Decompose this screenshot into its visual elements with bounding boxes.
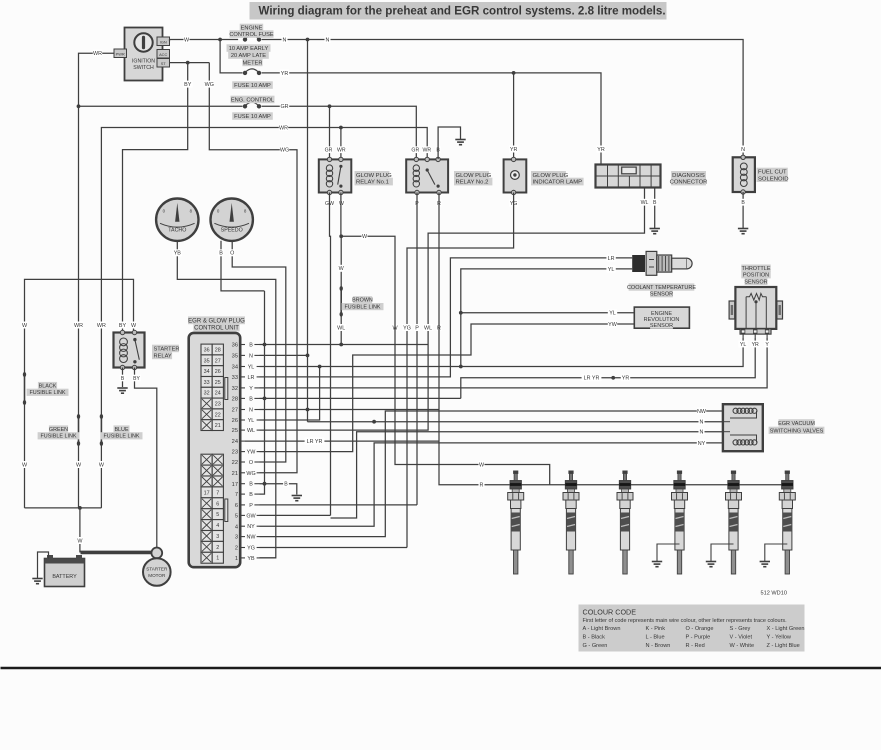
wire pin26 YL row <box>260 367 320 421</box>
svg-text:36: 36 <box>232 343 238 349</box>
svg-text:NW: NW <box>247 535 257 541</box>
svg-text:WG: WG <box>246 471 255 477</box>
svg-text:FUSIBLE LINK: FUSIBLE LINK <box>41 434 77 440</box>
wire B fuel cut solenoid to ground <box>742 192 744 229</box>
glow plug relay No.2 label <box>454 171 492 186</box>
wire pin34 YL row to throttle sensor <box>260 338 744 367</box>
node YW <box>608 321 618 328</box>
wire YG riser from indicator lamp <box>407 193 514 548</box>
node O <box>229 249 235 256</box>
svg-text:RELAY No.1: RELAY No.1 <box>356 180 389 186</box>
svg-text:CONTROL UNIT: CONTROL UNIT <box>194 326 239 332</box>
svg-text:WR: WR <box>93 51 102 57</box>
meter fuse <box>243 69 261 75</box>
black fusible link <box>23 372 26 405</box>
wire pin1 YB row <box>260 557 276 559</box>
node YG <box>402 324 411 331</box>
svg-text:WG: WG <box>205 82 214 88</box>
svg-text:YB: YB <box>247 556 255 562</box>
svg-text:W: W <box>339 201 344 207</box>
ignition switch box <box>125 28 163 81</box>
svg-text:6: 6 <box>216 501 219 507</box>
svg-text:25: 25 <box>232 428 238 434</box>
node WG <box>280 146 289 153</box>
svg-text:33: 33 <box>204 380 210 386</box>
ground relay No.2 B <box>455 140 465 145</box>
junction pin34 YL coolant branch <box>459 365 463 369</box>
wire LR-YR riser to throttle sensor <box>461 338 755 398</box>
glow plug indicator lamp <box>504 157 527 195</box>
svg-text:3: 3 <box>216 534 219 540</box>
brown fusible link <box>340 286 343 317</box>
svg-text:Y - Yellow: Y - Yellow <box>767 634 792 640</box>
coolant temperature sensor <box>632 251 692 275</box>
svg-text:WL: WL <box>641 200 649 206</box>
svg-text:GR: GR <box>411 148 419 154</box>
fuel cut solenoid <box>733 155 755 194</box>
svg-text:24: 24 <box>215 391 221 397</box>
svg-text:1: 1 <box>216 556 219 562</box>
glow plug 4 <box>672 471 688 575</box>
node BY <box>183 81 192 88</box>
svg-text:25: 25 <box>215 380 221 386</box>
node WR <box>279 124 288 131</box>
wire W battery positive cable to starter motor <box>81 551 152 555</box>
wire N1 row to EGR valve <box>308 421 723 423</box>
throttle position sensor <box>729 287 782 338</box>
wire pin32 Y row to throttle sensor <box>260 338 768 388</box>
svg-text:N: N <box>700 430 704 436</box>
svg-text:BY: BY <box>184 82 192 88</box>
node P <box>414 324 420 331</box>
wire R relay No.2 to glow plug bus <box>439 193 787 485</box>
svg-text:O - Orange: O - Orange <box>686 626 714 632</box>
svg-text:IGNITION: IGNITION <box>132 59 155 65</box>
glow plug 5 <box>726 471 742 575</box>
svg-text:24: 24 <box>232 439 238 445</box>
svg-text:SPEEDO: SPEEDO <box>221 228 243 234</box>
svg-text:Z - Light Blue: Z - Light Blue <box>767 643 800 649</box>
wire ignition ST output <box>170 62 210 64</box>
svg-text:23: 23 <box>215 402 221 408</box>
node YG <box>509 200 518 207</box>
svg-text:CONNECTOR: CONNECTOR <box>670 180 708 186</box>
svg-text:SENSOR: SENSOR <box>650 323 673 329</box>
svg-text:WG: WG <box>280 148 289 154</box>
wire B net riser (speedo B) <box>260 291 265 494</box>
glow plug relay No.2 <box>406 157 448 195</box>
svg-text:B: B <box>653 200 657 206</box>
junction pin28 B net <box>263 397 267 401</box>
node LR YR <box>582 374 602 381</box>
svg-text:Wiring diagram for the preheat: Wiring diagram for the preheat and EGR c… <box>259 5 666 18</box>
wire GW riser relay No.1 <box>330 193 331 516</box>
node GR <box>280 103 289 110</box>
wire N supply riser <box>307 40 309 422</box>
junction N riser <box>306 38 310 42</box>
svg-text:10 AMP EARLY: 10 AMP EARLY <box>229 46 269 52</box>
tachometer gauge <box>156 199 198 241</box>
drawing number 512 WD10 <box>761 591 787 597</box>
ground control unit pin17 <box>292 496 302 501</box>
svg-text:17: 17 <box>232 482 238 488</box>
svg-text:NY: NY <box>698 441 706 447</box>
junction NY crossing N1 <box>372 420 376 424</box>
svg-text:YG: YG <box>247 546 255 552</box>
svg-text:FUSIBLE LINK: FUSIBLE LINK <box>345 305 381 311</box>
svg-text:BLUE: BLUE <box>114 427 128 433</box>
svg-text:SWITCH: SWITCH <box>133 65 154 71</box>
svg-text:YL: YL <box>248 418 255 424</box>
node N <box>282 36 288 43</box>
junction pin27 N supply <box>306 408 310 412</box>
wire W ignition IGN to engine control fuse <box>170 40 239 42</box>
node WG <box>205 81 214 88</box>
wire glow plug 6 to ground <box>765 544 788 562</box>
svg-text:SWITCHING VALVES: SWITCHING VALVES <box>770 428 824 434</box>
glow plug relay No.1 <box>319 157 352 195</box>
svg-text:O: O <box>230 251 234 257</box>
node YL <box>606 265 615 272</box>
svg-text:YW: YW <box>608 322 618 328</box>
wire pin24 LR-YR row <box>245 440 439 442</box>
wire W to brown fusible link <box>340 236 342 288</box>
junction pin36 brown link <box>339 343 343 347</box>
svg-text:K - Pink: K - Pink <box>646 626 666 632</box>
svg-text:26: 26 <box>232 418 238 424</box>
wire N2 branch to EGR valve <box>331 432 723 518</box>
ignition terminal PWR <box>114 49 127 58</box>
junction YR indicator lamp branch <box>512 71 516 75</box>
node WR <box>337 146 346 153</box>
control unit lower pin grid <box>201 454 223 563</box>
ignition terminal ACC <box>157 50 170 59</box>
node R <box>479 481 485 488</box>
svg-text:FUSIBLE LINK: FUSIBLE LINK <box>104 434 140 440</box>
wire pin17 B ground tap <box>260 484 297 495</box>
svg-text:BY: BY <box>133 376 140 382</box>
wire pin27 N row <box>260 409 440 411</box>
node YL <box>608 309 617 316</box>
svg-text:G - Green: G - Green <box>583 643 608 649</box>
wire N fuse to fuel cut solenoid <box>262 40 743 157</box>
svg-text:1: 1 <box>235 556 238 562</box>
wire W black fusible link to starter relay <box>25 279 134 374</box>
node W <box>479 461 485 468</box>
svg-text:N: N <box>283 37 287 43</box>
junction battery feed <box>78 506 82 510</box>
wire WR ignition PWR to green fusible link <box>79 50 115 417</box>
svg-text:GR: GR <box>325 148 333 154</box>
node GR <box>411 146 420 153</box>
svg-text:22: 22 <box>232 460 238 466</box>
junction W meter-fuse branch <box>218 38 222 42</box>
svg-text:34: 34 <box>232 365 238 371</box>
junction pin35 N supply <box>306 354 310 358</box>
svg-text:SOLENOID: SOLENOID <box>758 176 788 182</box>
starter motor <box>143 548 171 586</box>
svg-text:METER: METER <box>243 61 263 67</box>
svg-text:EGR VACUUM: EGR VACUUM <box>778 421 815 427</box>
svg-text:YR: YR <box>597 147 605 153</box>
wire glow plug 4 to ground <box>657 544 680 562</box>
eng control fuse <box>243 102 261 108</box>
svg-text:GR: GR <box>280 104 288 110</box>
wire YR meter fuse to diagnosis connector <box>262 73 601 164</box>
node W <box>184 36 190 43</box>
starter relay <box>114 330 145 369</box>
svg-text:RELAY: RELAY <box>154 354 172 360</box>
node WL <box>423 324 432 331</box>
wire P riser relay No.2 <box>416 193 418 505</box>
svg-text:SENSOR: SENSOR <box>744 279 767 285</box>
svg-text:4: 4 <box>235 524 238 530</box>
wire B diagnosis connector to ground <box>654 188 656 229</box>
wire YB tacho to control unit pin 1 <box>177 241 275 558</box>
svg-text:WR: WR <box>74 323 83 329</box>
svg-text:33: 33 <box>232 375 238 381</box>
svg-text:WL: WL <box>424 325 432 331</box>
svg-text:7: 7 <box>235 492 238 498</box>
svg-text:28: 28 <box>215 348 221 354</box>
control unit upper guide <box>225 378 228 400</box>
svg-text:B: B <box>741 200 745 206</box>
wire pin5 GW row <box>260 514 331 516</box>
node W <box>77 537 83 544</box>
wire WR row to glow plug relays <box>101 128 427 417</box>
node WL <box>337 324 346 331</box>
junction GR relay No.1 branch <box>328 104 332 108</box>
node W <box>22 461 28 468</box>
green fusible link label <box>38 425 80 439</box>
svg-text:21: 21 <box>232 471 238 477</box>
wire BY to starter relay <box>123 63 188 332</box>
node YL <box>739 341 748 348</box>
svg-text:NW: NW <box>697 409 707 415</box>
diagnosis connector label <box>670 171 708 186</box>
svg-text:INDICATOR LAMP: INDICATOR LAMP <box>533 180 583 186</box>
junction YL revolution sensor <box>459 311 463 315</box>
node B <box>435 146 441 153</box>
wire W black link to battery bus <box>24 403 26 508</box>
svg-text:First letter of code represent: First letter of code represents main wir… <box>583 618 788 624</box>
svg-text:28: 28 <box>232 397 238 403</box>
svg-text:GREEN: GREEN <box>49 427 68 433</box>
wire YL engine revolution sensor row <box>461 312 635 314</box>
node W <box>362 233 368 240</box>
control unit upper pin grid <box>201 344 223 430</box>
svg-text:B: B <box>219 251 223 257</box>
node B <box>218 249 224 256</box>
svg-text:B: B <box>284 482 288 488</box>
svg-text:P: P <box>249 503 253 509</box>
black fusible link label <box>27 382 69 396</box>
svg-text:23: 23 <box>232 450 238 456</box>
wire YR to glow plug indicator lamp <box>513 73 515 159</box>
node R <box>436 324 442 331</box>
svg-text:3: 3 <box>235 535 238 541</box>
ground glow plug 5 <box>706 562 716 567</box>
wire pin35 N row <box>260 354 308 356</box>
svg-text:BLACK: BLACK <box>39 383 57 389</box>
wire W battery bus <box>25 507 102 509</box>
svg-text:STARTER: STARTER <box>146 567 168 572</box>
svg-text:27: 27 <box>232 408 238 414</box>
svg-text:YL: YL <box>248 365 255 371</box>
EGR & glow plug control unit label <box>188 316 245 331</box>
svg-text:2: 2 <box>235 546 238 552</box>
svg-text:B: B <box>249 492 253 498</box>
node GR <box>324 146 333 153</box>
svg-text:COLOUR CODE: COLOUR CODE <box>583 608 637 617</box>
svg-text:B: B <box>249 396 253 402</box>
wire GR fuse to glow plug relays <box>262 106 417 159</box>
svg-text:A - Light Brown: A - Light Brown <box>583 626 621 632</box>
glow plug relay No.1 label <box>355 171 393 186</box>
blue fusible link label <box>101 425 143 439</box>
svg-text:YR: YR <box>510 147 518 153</box>
wire pin23 YW row to engine revolution sensor <box>260 324 635 452</box>
svg-text:5: 5 <box>216 512 219 518</box>
svg-text:34: 34 <box>204 369 210 375</box>
svg-text:CONTROL FUSE: CONTROL FUSE <box>229 32 274 38</box>
svg-text:N: N <box>326 37 330 43</box>
node YR <box>621 374 630 381</box>
fuel cut solenoid label <box>757 168 789 183</box>
junction pin34 YL pin26 branch <box>318 365 322 369</box>
node P <box>414 200 420 207</box>
svg-text:YR: YR <box>752 342 759 348</box>
glow plug 3 <box>617 471 633 575</box>
node N <box>699 428 705 435</box>
junction pin36 B net <box>263 343 267 347</box>
svg-text:ACC: ACC <box>159 52 167 57</box>
svg-text:N: N <box>249 408 253 414</box>
wire W green link to battery bus <box>78 444 80 508</box>
wire WG to control unit pin 21 <box>209 63 297 473</box>
svg-text:36: 36 <box>204 348 210 354</box>
svg-text:4: 4 <box>216 523 219 529</box>
ground fuel cut solenoid B <box>738 229 748 234</box>
wire pin2 YG row <box>260 547 408 549</box>
junction BY branch <box>186 61 190 65</box>
svg-text:PWR: PWR <box>116 52 125 57</box>
node YR <box>751 341 760 348</box>
svg-text:17: 17 <box>204 490 210 496</box>
svg-text:L - Blue: L - Blue <box>646 634 665 640</box>
wire meter fuse feed <box>220 40 242 73</box>
svg-text:N: N <box>741 147 745 153</box>
svg-text:FUSE 10 AMP: FUSE 10 AMP <box>234 83 271 89</box>
wire eng control fuse feed <box>79 105 243 107</box>
svg-text:BY: BY <box>119 323 127 329</box>
svg-text:ST: ST <box>161 61 167 66</box>
node BY <box>118 322 127 329</box>
svg-text:7: 7 <box>216 490 219 496</box>
node BY <box>132 375 141 382</box>
svg-text:W - White: W - White <box>730 643 755 649</box>
battery <box>45 555 85 587</box>
svg-text:X - Light Green: X - Light Green <box>767 626 805 632</box>
node B <box>652 199 658 206</box>
node YB <box>173 249 182 256</box>
svg-text:YL: YL <box>608 267 615 273</box>
node B <box>740 199 746 206</box>
wire BY starter relay to starter motor <box>135 368 157 548</box>
svg-text:LR: LR <box>608 256 615 262</box>
svg-text:WL: WL <box>247 428 255 434</box>
wire GR branch to relay No.1 <box>329 106 331 159</box>
meter fuse label <box>232 59 273 89</box>
svg-text:WR: WR <box>422 148 431 154</box>
wire B starter relay to ground <box>122 368 124 388</box>
node W <box>392 324 398 331</box>
junction WR / eng-control-fuse feed <box>77 104 81 108</box>
colour code legend <box>579 605 805 652</box>
svg-text:S - Grey: S - Grey <box>730 626 751 632</box>
svg-text:P: P <box>415 325 419 331</box>
svg-text:6: 6 <box>235 503 238 509</box>
EGR & glow plug control unit box <box>189 333 241 567</box>
node W <box>22 322 28 329</box>
svg-text:N: N <box>700 420 704 426</box>
svg-text:BROWN: BROWN <box>352 298 373 304</box>
svg-text:2: 2 <box>216 545 219 551</box>
svg-text:YL: YL <box>609 311 616 317</box>
ignition terminal ST <box>157 59 170 68</box>
svg-text:BATTERY: BATTERY <box>52 574 77 580</box>
ignition terminal IGN <box>157 37 170 46</box>
ground glow plug 4 <box>652 562 662 567</box>
svg-text:NY: NY <box>247 524 255 530</box>
svg-text:FUSIBLE LINK: FUSIBLE LINK <box>30 390 66 396</box>
control unit lower guide <box>225 499 228 522</box>
EGR vacuum switching valves <box>723 404 763 451</box>
wire pin6 P row <box>260 504 418 506</box>
svg-text:YL: YL <box>740 342 746 348</box>
wire pin4 NY row to EGR valve <box>260 443 723 526</box>
glow plug 6 <box>779 471 795 575</box>
throttle position sensor label <box>741 265 771 286</box>
svg-text:V - Violet: V - Violet <box>730 634 753 640</box>
engine revolution sensor <box>634 307 689 329</box>
svg-text:R: R <box>480 483 484 489</box>
svg-text:GW: GW <box>246 513 256 519</box>
svg-text:B: B <box>249 343 253 349</box>
svg-text:YB: YB <box>174 251 182 257</box>
svg-text:B: B <box>249 482 253 488</box>
node R <box>436 200 442 207</box>
svg-text:N - Brown: N - Brown <box>646 643 671 649</box>
wire WL brown link to pin36 row <box>340 314 342 344</box>
svg-text:SENSOR: SENSOR <box>650 292 673 298</box>
wire glow plug 5 to ground <box>711 544 734 562</box>
svg-text:P - Purple: P - Purple <box>686 634 711 640</box>
control unit pin callouts <box>232 343 260 563</box>
svg-text:5: 5 <box>235 514 238 520</box>
coolant temperature sensor label <box>627 283 696 297</box>
svg-text:B - Black: B - Black <box>583 634 606 640</box>
svg-text:N: N <box>249 353 253 359</box>
glow plug 2 <box>563 471 579 575</box>
wire battery negative to ground <box>38 552 49 579</box>
wire WL diagnosis connector to control unit pin 25 <box>260 188 645 431</box>
node W <box>76 461 82 468</box>
glow plug 1 <box>508 471 524 575</box>
wire W relay No.1 to glow plug bus <box>341 193 550 485</box>
node WR <box>74 322 83 329</box>
diagnosis connector <box>596 165 661 188</box>
